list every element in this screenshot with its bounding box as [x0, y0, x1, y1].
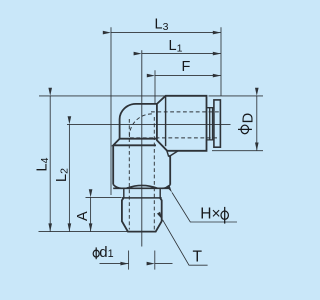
ext line bottom (L4/L2/A)	[39, 231, 129, 233]
phi symbol of phi d1	[93, 247, 99, 259]
hidden bore lines (dashed) horizontal port	[129, 112, 219, 230]
cylinder cap boundary line	[165, 97, 167, 147]
thread start line	[122, 197, 162, 199]
hidden thread / bore lines vertical	[128, 119, 130, 230]
ext line left overall (L3)	[110, 27, 112, 195]
leader T	[163, 220, 208, 265]
dim L3	[111, 32, 221, 34]
dim L4	[49, 96, 51, 232]
elbow block bottom edge	[120, 138, 157, 140]
ext line right overall	[220, 27, 222, 95]
hex chamfer arcs	[113, 185, 170, 189]
svg-text:T: T	[193, 248, 203, 265]
dim L1	[142, 53, 221, 55]
leader H x phi	[172, 193, 237, 223]
ext line A top	[86, 196, 122, 198]
ext lines phi d1	[128, 251, 130, 270]
dim phiD	[256, 96, 258, 151]
release collet flange	[214, 100, 221, 147]
phi symbol of H x phi	[221, 207, 228, 224]
collet neck	[207, 108, 214, 140]
svg-text:A: A	[75, 211, 91, 221]
dim A	[90, 197, 92, 231]
svg-text:D: D	[241, 113, 257, 123]
hex bottom edge	[113, 187, 170, 189]
centerline vertical (axis of threaded port, also L1 extension)	[141, 50, 143, 246]
centerline horizontal (axis of tube port, also L2 extension)	[67, 123, 231, 125]
hex corner visible under cylinder (small triangle)	[167, 151, 178, 157]
ext line phiD bottom	[212, 150, 263, 152]
hex nut H	[113, 139, 170, 185]
washer / thread relief collar	[124, 188, 160, 198]
dim F	[155, 75, 221, 77]
ext line F (block right face)	[154, 70, 156, 104]
svg-text:F: F	[182, 59, 191, 75]
dim phi d1 left / right	[100, 263, 129, 265]
hidden bend arc	[129, 114, 152, 137]
threaded stud T	[122, 198, 162, 232]
body outline: elbow block + tube-port cylinder	[120, 96, 207, 151]
phi symbol of phiD (rotated)	[238, 125, 252, 134]
ext line top (L4 / phiD top)	[39, 95, 165, 97]
dim L2	[68, 124, 70, 231]
svg-text:H×: H×	[200, 206, 220, 223]
